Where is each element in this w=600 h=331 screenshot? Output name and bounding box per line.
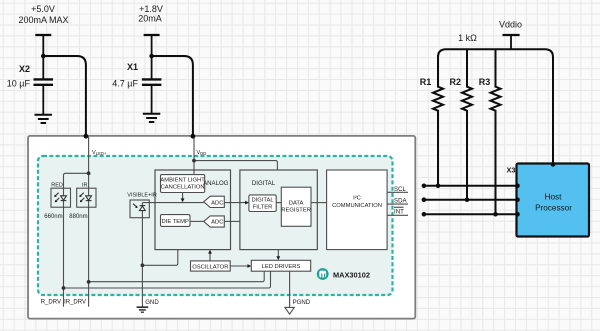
svg-text:X1: X1 — [127, 62, 138, 72]
svg-text:FILTER: FILTER — [253, 204, 273, 210]
svg-text:200mA MAX: 200mA MAX — [18, 15, 68, 25]
svg-text:20mA: 20mA — [138, 14, 162, 24]
svg-text:GND: GND — [145, 299, 159, 306]
svg-text:ANALOG: ANALOG — [203, 180, 229, 187]
svg-text:+5.0V: +5.0V — [31, 4, 55, 14]
svg-text:REGISTER: REGISTER — [281, 207, 311, 213]
svg-text:X2: X2 — [19, 64, 30, 74]
svg-text:OSCILLATOR: OSCILLATOR — [192, 264, 228, 270]
svg-text:X3: X3 — [506, 166, 515, 175]
svg-text:10 µF: 10 µF — [7, 79, 31, 89]
svg-text:880nm: 880nm — [69, 214, 87, 220]
svg-text:VLED+: VLED+ — [92, 150, 107, 156]
svg-text:VISIBLE+IR: VISIBLE+IR — [127, 193, 157, 199]
svg-text:1 kΩ: 1 kΩ — [458, 33, 477, 43]
svg-text:DIGITAL: DIGITAL — [252, 180, 276, 187]
svg-text:R3: R3 — [479, 77, 491, 87]
svg-text:I²C: I²C — [353, 196, 361, 202]
svg-text:ADC: ADC — [211, 220, 223, 226]
svg-text:CANCELLATION: CANCELLATION — [161, 185, 205, 191]
svg-text:MAX30102: MAX30102 — [333, 270, 370, 279]
svg-text:PGND: PGND — [293, 299, 311, 306]
svg-text:IR_DRV: IR_DRV — [64, 299, 86, 305]
svg-text:LED DRIVERS: LED DRIVERS — [262, 264, 301, 270]
svg-text:Vddio: Vddio — [499, 20, 522, 30]
svg-text:4.7 µF: 4.7 µF — [112, 79, 138, 89]
svg-text:DIGITAL: DIGITAL — [251, 198, 274, 204]
svg-text:ADC: ADC — [211, 200, 223, 206]
svg-text:DATA: DATA — [289, 201, 304, 207]
svg-text:R2: R2 — [450, 77, 462, 87]
svg-text:R1: R1 — [420, 77, 432, 87]
svg-text:R_DRV: R_DRV — [41, 299, 61, 305]
svg-text:SDA: SDA — [394, 198, 407, 205]
svg-text:IR: IR — [82, 183, 88, 189]
svg-text:INT: INT — [394, 209, 404, 216]
svg-text:SCL: SCL — [394, 186, 406, 193]
svg-text:RED: RED — [51, 183, 63, 189]
svg-text:DIE TEMP: DIE TEMP — [162, 219, 189, 225]
svg-text:660nm: 660nm — [44, 214, 62, 220]
svg-text:Processor: Processor — [535, 203, 572, 212]
svg-text:Host: Host — [545, 193, 563, 202]
svg-text:COMMUNICATION: COMMUNICATION — [332, 203, 382, 209]
svg-text:+1.8V: +1.8V — [139, 4, 163, 14]
svg-text:AMBIENT LIGHT: AMBIENT LIGHT — [160, 178, 205, 184]
svg-text:VDD: VDD — [197, 150, 207, 156]
